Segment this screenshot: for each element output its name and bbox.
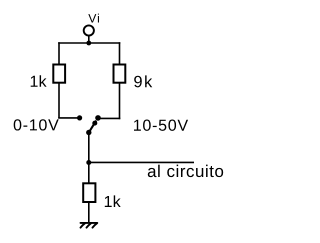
wire (junction down to R3) (88, 162, 90, 184)
value label 1k (left resistor R1) (31, 75, 47, 87)
wire (left branch vertical: rail to R1) (58, 42, 60, 65)
net label 10-50V (switch position 2) (134, 120, 188, 131)
resistor R1 1k (left branch) (53, 65, 65, 83)
switch SW1 arm end dot (92, 121, 97, 126)
resistor R2 9k (right branch) (114, 65, 126, 83)
wire (right branch vertical: rail to R2) (119, 42, 121, 65)
wire (left branch horizontal to switch contact) (58, 117, 79, 119)
terminal Vi (input terminal circle) (84, 25, 94, 35)
node (switch contact dot, 0-10V side) (77, 115, 82, 120)
label Vi (88, 14, 99, 23)
node (output junction dot) (86, 160, 91, 165)
net label al circuito (output) (148, 165, 223, 177)
wire (left branch below R1) (58, 83, 60, 118)
resistor R3 1k (lower) (83, 183, 95, 202)
value label 9k (right resistor R2) (134, 75, 152, 87)
node (junction dot on top rail) (86, 41, 91, 46)
node (switch contact dot, 10-50V side) (95, 115, 101, 121)
wire (switch pole down to output junction) (88, 133, 90, 163)
wire (stub from Vi terminal down to top rail) (88, 36, 90, 43)
wire (R3 down to ground) (88, 202, 90, 224)
wire (top horizontal rail) (58, 42, 120, 44)
value label 1k (lower resistor R3) (105, 195, 121, 207)
wire (right branch below R2) (119, 83, 121, 120)
switch SW1 arm (pole to 10-50V contact) (89, 121, 96, 133)
wire (right branch horizontal to switch contact) (98, 117, 120, 119)
switch SW1 pole dot (86, 130, 91, 135)
ground (81, 223, 98, 228)
net label 0-10V (switch position 1) (14, 119, 59, 130)
wire (output horizontal, to al circuito) (89, 161, 194, 163)
